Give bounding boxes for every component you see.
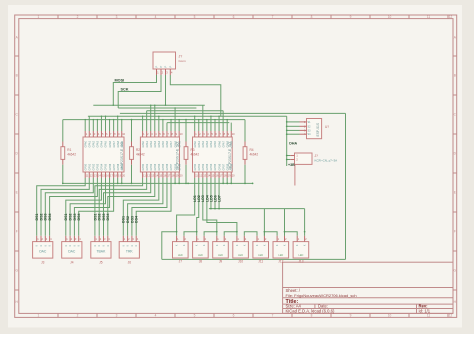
svg-text:GPA5: GPA5 bbox=[105, 140, 108, 147]
svg-text:GPB7: GPB7 bbox=[170, 163, 173, 170]
svg-text:9: 9 bbox=[350, 314, 352, 318]
svg-text:9: 9 bbox=[350, 15, 352, 19]
svg-text:2: 2 bbox=[77, 314, 79, 318]
svg-text:12: 12 bbox=[449, 15, 453, 19]
svg-text:R2: R2 bbox=[136, 148, 140, 152]
svg-text:7: 7 bbox=[272, 314, 274, 318]
svg-text:GPA6: GPA6 bbox=[109, 140, 112, 147]
svg-text:LED: LED bbox=[198, 254, 203, 257]
svg-text:2: 2 bbox=[77, 15, 79, 19]
svg-text:LED: LED bbox=[258, 254, 263, 257]
svg-text:J4: J4 bbox=[70, 261, 74, 265]
svg-text:1: 1 bbox=[38, 15, 40, 19]
svg-text:11: 11 bbox=[427, 15, 431, 19]
svg-text:GPA0: GPA0 bbox=[142, 140, 145, 147]
svg-text:GPB3: GPB3 bbox=[206, 163, 209, 170]
svg-text:E: E bbox=[16, 191, 18, 195]
svg-text:LED: LED bbox=[178, 254, 183, 257]
svg-text:GPA4: GPA4 bbox=[210, 140, 213, 147]
svg-text:GPA9: GPA9 bbox=[230, 140, 233, 147]
svg-text:J10: J10 bbox=[238, 260, 243, 264]
svg-text:ESP-01S: ESP-01S bbox=[316, 122, 320, 136]
svg-text:DAC: DAC bbox=[68, 250, 76, 254]
svg-text:GPA1: GPA1 bbox=[88, 140, 91, 147]
svg-text:F: F bbox=[16, 230, 18, 234]
svg-text:GPB7: GPB7 bbox=[222, 163, 225, 170]
svg-text:4k642: 4k642 bbox=[191, 153, 200, 157]
svg-text:GPA2: GPA2 bbox=[93, 140, 96, 147]
svg-text:GPA0: GPA0 bbox=[194, 140, 197, 147]
svg-text:GPB9: GPB9 bbox=[121, 163, 124, 170]
svg-text:GPB4: GPB4 bbox=[210, 163, 213, 170]
svg-text:P: P bbox=[164, 66, 168, 68]
svg-text:P: P bbox=[155, 66, 159, 68]
svg-text:Id: 1/1: Id: 1/1 bbox=[419, 309, 431, 314]
svg-text:B: B bbox=[454, 74, 456, 78]
svg-text:KiCad E.D.A. kicad (6.0.6): KiCad E.D.A. kicad (6.0.6) bbox=[286, 309, 335, 314]
svg-text:GPB8: GPB8 bbox=[174, 163, 177, 170]
svg-text:J6: J6 bbox=[128, 261, 132, 265]
svg-text:11: 11 bbox=[427, 314, 431, 318]
svg-text:GPB4: GPB4 bbox=[158, 163, 161, 170]
svg-text:GPA7: GPA7 bbox=[113, 140, 116, 147]
svg-text:J?: J? bbox=[179, 55, 183, 59]
svg-text:GPB1: GPB1 bbox=[146, 163, 149, 170]
svg-text:P: P bbox=[168, 66, 172, 68]
svg-text:B: B bbox=[16, 74, 18, 78]
svg-text:4: 4 bbox=[155, 314, 157, 318]
svg-text:GPA3: GPA3 bbox=[206, 140, 209, 147]
svg-text:GPA1: GPA1 bbox=[198, 140, 201, 147]
svg-text:GPB1: GPB1 bbox=[88, 163, 91, 170]
svg-text:10: 10 bbox=[388, 314, 392, 318]
svg-text:4: 4 bbox=[155, 15, 157, 19]
svg-text:GPA6: GPA6 bbox=[166, 140, 169, 147]
svg-text:GPB6: GPB6 bbox=[166, 163, 169, 170]
svg-text:GPA9: GPA9 bbox=[178, 140, 181, 147]
svg-text:KCR~CN_y7~3A: KCR~CN_y7~3A bbox=[315, 159, 338, 163]
svg-text:J9: J9 bbox=[219, 260, 223, 264]
svg-text:OAC: OAC bbox=[39, 250, 47, 254]
svg-text:E: E bbox=[454, 191, 456, 195]
svg-text:GPA6: GPA6 bbox=[218, 140, 221, 147]
svg-text:GPA5: GPA5 bbox=[162, 140, 165, 147]
svg-text:1: 1 bbox=[38, 314, 40, 318]
svg-text:J3: J3 bbox=[41, 261, 45, 265]
svg-text:File: FrigoNouveauWCR2706.kica: File: FrigoNouveauWCR2706.kicad_sch bbox=[286, 293, 357, 298]
svg-text:GPB8: GPB8 bbox=[117, 163, 120, 170]
svg-text:GPA8: GPA8 bbox=[117, 140, 120, 147]
svg-text:10: 10 bbox=[388, 15, 392, 19]
svg-text:8: 8 bbox=[311, 314, 313, 318]
svg-text:DS4: DS4 bbox=[48, 214, 52, 221]
svg-text:GPA3: GPA3 bbox=[97, 140, 100, 147]
svg-text:12: 12 bbox=[449, 314, 453, 318]
svg-text:R4: R4 bbox=[250, 148, 254, 152]
svg-text:GPB5: GPB5 bbox=[214, 163, 217, 170]
svg-text:DHA: DHA bbox=[289, 142, 297, 146]
svg-text:R1: R1 bbox=[67, 148, 71, 152]
svg-text:GPA3: GPA3 bbox=[154, 140, 157, 147]
svg-text:J13: J13 bbox=[298, 260, 303, 264]
svg-text:GPB1: GPB1 bbox=[198, 163, 201, 170]
svg-text:6: 6 bbox=[233, 314, 235, 318]
svg-text:GPB3: GPB3 bbox=[154, 163, 157, 170]
svg-text:GPA0: GPA0 bbox=[84, 140, 87, 147]
svg-text:6: 6 bbox=[233, 15, 235, 19]
svg-text:Conn: Conn bbox=[179, 59, 187, 63]
svg-text:GPB0: GPB0 bbox=[194, 163, 197, 170]
svg-text:7: 7 bbox=[272, 15, 274, 19]
svg-text:GPB0: GPB0 bbox=[84, 163, 87, 170]
svg-text:GPA2: GPA2 bbox=[202, 140, 205, 147]
svg-text:J8: J8 bbox=[199, 260, 203, 264]
svg-text:SCK: SCK bbox=[121, 88, 129, 92]
svg-text:GPA2: GPA2 bbox=[150, 140, 153, 147]
svg-text:GPB2: GPB2 bbox=[202, 163, 205, 170]
svg-text:GPA5: GPA5 bbox=[214, 140, 217, 147]
svg-text:GPB9: GPB9 bbox=[230, 163, 233, 170]
svg-text:P: P bbox=[159, 66, 163, 68]
svg-text:GPB4: GPB4 bbox=[101, 163, 104, 170]
svg-text:3: 3 bbox=[116, 314, 118, 318]
svg-text:LED: LED bbox=[278, 254, 283, 257]
svg-text:LED: LED bbox=[238, 254, 243, 257]
svg-text:4k642: 4k642 bbox=[136, 153, 145, 157]
svg-text:GPB6: GPB6 bbox=[109, 163, 112, 170]
svg-text:GPA1: GPA1 bbox=[146, 140, 149, 147]
svg-text:J7: J7 bbox=[179, 260, 183, 264]
svg-text:+3B: +3B bbox=[288, 163, 295, 167]
svg-text:J?: J? bbox=[315, 154, 319, 158]
svg-text:GPB9: GPB9 bbox=[178, 163, 181, 170]
svg-text:GPA9: GPA9 bbox=[121, 140, 124, 147]
svg-text:DS4: DS4 bbox=[106, 214, 110, 221]
svg-text:GPA4: GPA4 bbox=[101, 140, 104, 147]
svg-text:GPA8: GPA8 bbox=[174, 140, 177, 147]
svg-text:LED: LED bbox=[218, 254, 223, 257]
svg-text:DS4: DS4 bbox=[135, 216, 139, 223]
svg-text:GPB8: GPB8 bbox=[226, 163, 229, 170]
svg-text:J12: J12 bbox=[278, 260, 283, 264]
svg-text:R3: R3 bbox=[191, 148, 195, 152]
svg-text:MOSI: MOSI bbox=[115, 79, 125, 83]
svg-text:GPA7: GPA7 bbox=[170, 140, 173, 147]
svg-text:TBAK: TBAK bbox=[96, 250, 106, 254]
svg-text:GPB7: GPB7 bbox=[113, 163, 116, 170]
svg-text:TRK: TRK bbox=[126, 250, 134, 254]
svg-text:4k642: 4k642 bbox=[67, 153, 76, 157]
svg-text:5: 5 bbox=[194, 15, 196, 19]
svg-text:GPB2: GPB2 bbox=[93, 163, 96, 170]
svg-text:GPB2: GPB2 bbox=[150, 163, 153, 170]
svg-text:GPA7: GPA7 bbox=[222, 140, 225, 147]
svg-text:U?: U? bbox=[325, 125, 329, 129]
svg-text:4k642: 4k642 bbox=[250, 153, 259, 157]
svg-text:8: 8 bbox=[311, 15, 313, 19]
svg-text:3: 3 bbox=[116, 15, 118, 19]
svg-text:LED: LED bbox=[298, 254, 303, 257]
svg-text:GPA4: GPA4 bbox=[158, 140, 161, 147]
svg-text:GPB5: GPB5 bbox=[105, 163, 108, 170]
svg-text:GPB3: GPB3 bbox=[97, 163, 100, 170]
svg-text:J11: J11 bbox=[258, 260, 263, 264]
svg-text:GPA8: GPA8 bbox=[226, 140, 229, 147]
svg-text:F: F bbox=[454, 230, 456, 234]
svg-text:J5: J5 bbox=[99, 261, 103, 265]
svg-text:GPB0: GPB0 bbox=[142, 163, 145, 170]
svg-text:5: 5 bbox=[194, 314, 196, 318]
svg-text:LD7: LD7 bbox=[217, 195, 221, 202]
svg-text:DS4: DS4 bbox=[77, 214, 81, 221]
svg-text:GPB6: GPB6 bbox=[218, 163, 221, 170]
svg-text:GPB5: GPB5 bbox=[162, 163, 165, 170]
